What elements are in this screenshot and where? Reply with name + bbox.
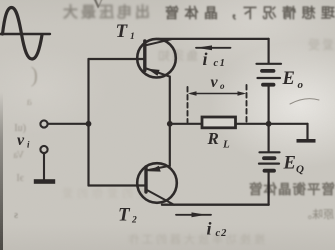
sine source axis [0, 33, 50, 35]
wire: T2 base [89, 184, 146, 186]
input terminal lower [40, 146, 47, 153]
node B junction dot (output node) [167, 121, 173, 127]
node C junction dot [266, 121, 272, 127]
svg-text:R: R [207, 129, 219, 148]
svg-text:c2: c2 [216, 228, 228, 239]
svg-text:L: L [222, 139, 230, 151]
label RL [207, 129, 231, 151]
svg-text:E: E [283, 153, 296, 173]
transistor T1 [137, 39, 176, 78]
wire: top rail (T1 collector to battery Ec) [158, 38, 269, 40]
label vi [17, 132, 30, 150]
current arrow ic2 [176, 212, 211, 217]
svg-text:c1: c1 [214, 58, 227, 69]
current arrow ic1 [196, 45, 231, 50]
wire: T1 base [89, 58, 145, 60]
wire: upper terminal to junction A [48, 123, 87, 125]
ground (right) [297, 139, 316, 143]
wire: battery Ec to node C [268, 86, 270, 124]
battery EQ [259, 152, 280, 170]
svg-text:T: T [116, 21, 129, 42]
bleed-through mirrored text (decorative) [150, 3, 335, 23]
wire: mid rail left (node B to resistor) [170, 123, 202, 125]
svg-text:v: v [211, 74, 219, 91]
vo dashed line left [187, 87, 189, 123]
label T1 [116, 21, 135, 42]
svg-text:o: o [220, 81, 225, 91]
svg-text:Q: Q [296, 164, 304, 176]
wire: left vertical bus [87, 59, 89, 186]
svg-text:E: E [282, 69, 295, 89]
label EQ [283, 153, 305, 175]
wire: bottom rail (T2 collector to battery EQ) [162, 203, 269, 205]
transistor T2 [137, 163, 177, 205]
svg-text:T: T [118, 205, 131, 226]
label ic2 [207, 218, 228, 239]
svg-text:1: 1 [130, 32, 135, 42]
ground (input) [34, 179, 55, 184]
wire: down to battery Ec [268, 39, 270, 63]
wire: battery EQ to bottom rail [268, 172, 270, 205]
wire: node C to ground [269, 123, 308, 125]
vo dashed line right [246, 85, 248, 123]
resistor RL [202, 117, 236, 128]
wire: emitter vertical (T1 to T2) [169, 77, 171, 167]
svg-text:2: 2 [131, 215, 137, 225]
label vo [211, 74, 226, 91]
wire: resistor to node C [236, 123, 269, 125]
svg-text:i: i [203, 49, 208, 69]
svg-text:v: v [17, 132, 25, 149]
label T2 [118, 205, 137, 226]
node A junction dot [86, 121, 92, 127]
svg-text:i: i [207, 218, 212, 238]
wire: lower terminal stem to ground [43, 153, 45, 179]
svg-text:i: i [27, 140, 30, 150]
input terminal upper [40, 120, 47, 127]
dark scan edge left [0, 92, 3, 250]
wire: node C to battery EQ [268, 124, 270, 152]
vo arrow [188, 91, 246, 96]
label ic1 [203, 49, 227, 69]
battery Ec [257, 64, 282, 85]
pencil mark [290, 99, 319, 104]
svg-text:o: o [298, 79, 304, 91]
sine source waveform [3, 8, 43, 60]
label Ec [282, 69, 304, 91]
